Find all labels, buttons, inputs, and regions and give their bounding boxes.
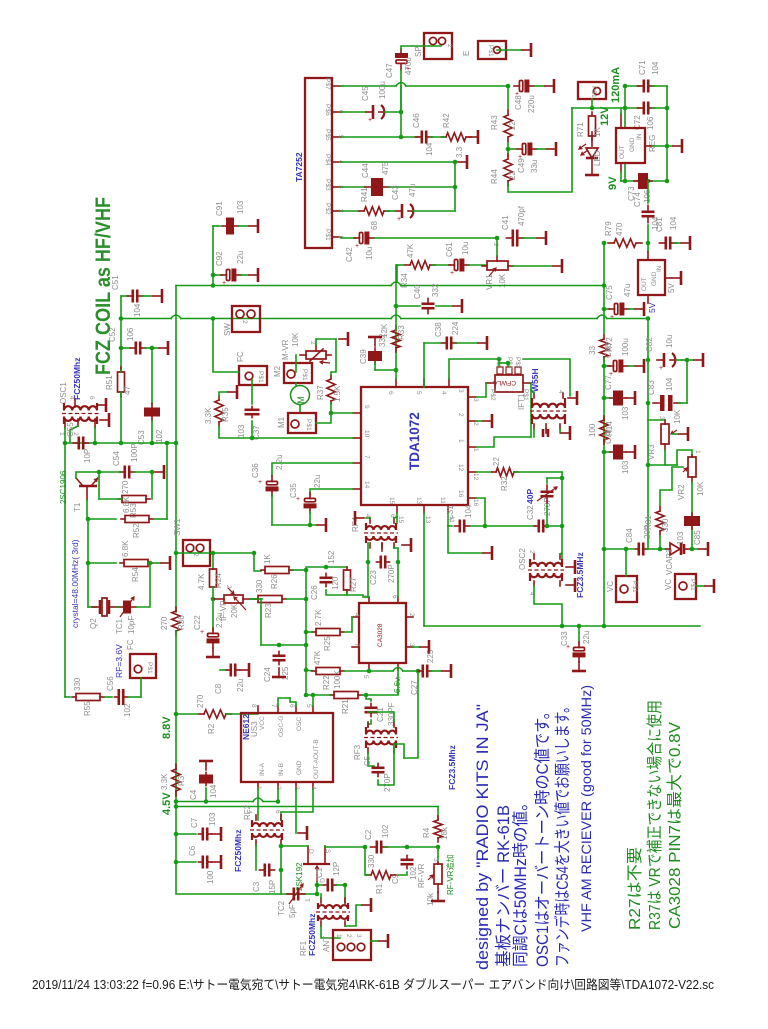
- transformer RF4: [364, 523, 398, 543]
- svg-text:22u: 22u: [582, 631, 591, 644]
- junction 40P top: [560, 476, 565, 481]
- pin TDA1072 10 left: [353, 437, 361, 439]
- capacitor C82 10u: [657, 353, 675, 372]
- junction C71 left: [623, 84, 628, 89]
- wire R81 to VR2 wiper: [660, 467, 683, 505]
- wire x65 long vertical: [64, 443, 66, 697]
- svg-text:270: 270: [196, 694, 205, 708]
- wire REG GND: [652, 145, 672, 147]
- wire C43 to node: [413, 210, 455, 212]
- svg-text:C5: C5: [363, 755, 372, 766]
- wire C5 loop: [378, 753, 394, 785]
- svg-text:P$1: P$1: [324, 229, 331, 241]
- pin TDA1072 1 right: [468, 446, 476, 448]
- svg-text:C40: C40: [413, 284, 422, 299]
- wire C61-VR1: [469, 264, 486, 266]
- svg-text:9: 9: [363, 405, 370, 409]
- capacitor C47 470u: [395, 49, 410, 73]
- wire RF3 out: [394, 744, 404, 758]
- svg-text:104: 104: [209, 784, 218, 798]
- svg-text:103: 103: [208, 812, 217, 826]
- svg-text:OSC1はオーバートーン時のC値です。: OSC1はオーバートーン時のC値です。: [533, 704, 552, 967]
- svg-text:R37は VRで補正できない場合に使用: R37は VRで補正できない場合に使用: [646, 700, 664, 930]
- junction rail2 left end: [119, 316, 124, 321]
- svg-text:475: 475: [381, 161, 390, 175]
- svg-text:+: +: [450, 270, 454, 277]
- svg-text:68: 68: [370, 221, 379, 230]
- svg-text:R23: R23: [264, 603, 273, 618]
- svg-text:102: 102: [381, 824, 390, 838]
- capacitor C76 100u: [608, 360, 628, 379]
- svg-text:C42: C42: [345, 247, 354, 262]
- connector ANT: [333, 930, 371, 960]
- pin REG IN: [620, 114, 622, 128]
- junction C39 row: [394, 368, 399, 373]
- wire to gnd: [682, 359, 693, 361]
- wire R52 right: [154, 518, 167, 520]
- wire R43-R44: [507, 143, 509, 156]
- svg-text:22u: 22u: [313, 475, 322, 488]
- svg-text:R35: R35: [221, 407, 230, 422]
- svg-text:C85: C85: [693, 530, 702, 545]
- wire bottom rail y626: [424, 625, 700, 627]
- pin RF2 stubs: [256, 815, 281, 845]
- pin stub TA7252 P$2: [332, 210, 341, 212]
- wire left vertical 12V loop: [624, 86, 626, 127]
- svg-text:2: 2: [225, 585, 232, 589]
- svg-text:R21: R21: [341, 699, 350, 714]
- svg-text:100: 100: [206, 870, 215, 884]
- svg-text:15: 15: [388, 497, 395, 505]
- capacitor C83 104: [653, 395, 680, 411]
- junction 40P/C32: [545, 524, 550, 529]
- resistor R36 270: [172, 607, 180, 635]
- wire to C52: [121, 347, 130, 349]
- wire P$1: [341, 237, 356, 239]
- svg-text:15: 15: [397, 516, 404, 524]
- wire C9 to R1: [398, 872, 407, 875]
- pin TDA1072 12 right: [468, 471, 476, 473]
- wire C31 right: [470, 525, 485, 527]
- svg-text:R32: R32: [500, 476, 509, 491]
- wire C84 right: [647, 548, 660, 550]
- svg-text:7: 7: [363, 455, 370, 459]
- junction C4/4.5V rail: [204, 799, 209, 804]
- svg-text:22u: 22u: [236, 251, 245, 264]
- wire R44 to 12V feed: [508, 108, 572, 192]
- wire pin3 to gnd: [413, 646, 419, 648]
- svg-text:FC: FC: [126, 639, 135, 650]
- svg-text:FCZ50Mhz: FCZ50Mhz: [307, 914, 317, 957]
- svg-text:P$2: P$2: [489, 389, 496, 401]
- svg-text:C4: C4: [189, 789, 198, 800]
- junction FC feed: [211, 316, 216, 321]
- wire to C92: [213, 274, 222, 276]
- wire SP to C47: [401, 46, 441, 49]
- resistor R43 22: [504, 110, 512, 142]
- wire RF1 top to rail: [320, 894, 322, 898]
- wire P$2: [341, 210, 360, 212]
- svg-text:+: +: [355, 243, 359, 250]
- svg-text:RF3: RF3: [353, 744, 362, 760]
- svg-text:R71: R71: [576, 122, 585, 137]
- ground OSC2 right2: [566, 578, 575, 592]
- pin stub TA7252 P$7: [332, 85, 341, 87]
- wire drain to RF2: [281, 845, 308, 847]
- capacitor C39 332: [368, 348, 382, 364]
- svg-text:100P: 100P: [130, 443, 139, 462]
- junction TC2/gate: [315, 892, 320, 897]
- wire to R54: [88, 562, 116, 564]
- junction C53 tap: [150, 346, 155, 351]
- wire to C21: [366, 695, 371, 701]
- ground VR3 wiper: [679, 427, 688, 441]
- trimmer capacitor TC2 5pF: [287, 884, 305, 904]
- ground above C4: [199, 761, 213, 770]
- junction C54/gnd: [150, 470, 155, 475]
- svg-text:470u: 470u: [404, 57, 413, 75]
- wire pin6 up: [395, 332, 397, 379]
- resistor R32 22: [492, 468, 518, 476]
- wire C27 right: [431, 670, 441, 672]
- wire C24 row: [261, 644, 306, 646]
- wire pin1 to IFT1: [476, 437, 531, 447]
- svg-text:CFWLA: CFWLA: [493, 379, 516, 386]
- ground above R35: [228, 385, 237, 399]
- wire to C31: [448, 525, 452, 527]
- junction 9V rail end: [602, 283, 607, 288]
- wire C21 to RF3: [368, 720, 371, 727]
- capacitor C48 220u: [514, 80, 534, 99]
- svg-text:IFT1: IFT1: [517, 393, 526, 410]
- wire R54 right: [153, 562, 160, 564]
- junction R21 left: [304, 693, 309, 698]
- capacitor C75 47u: [609, 303, 629, 322]
- resistor R53 270: [118, 496, 150, 503]
- pin stub TA7252 P$1: [332, 236, 341, 238]
- svg-text:1: 1: [457, 439, 464, 443]
- junction R43 top: [506, 84, 511, 89]
- junction C23 left: [366, 560, 371, 565]
- potentiometer M-VR 10K: [300, 345, 331, 364]
- wire 4.5V rail B: [176, 806, 438, 808]
- wire M-VR to M2: [295, 355, 297, 372]
- wire C51 to gnd: [142, 295, 152, 297]
- resistor R42 3.3: [441, 133, 471, 141]
- junction 5V net: [646, 316, 651, 321]
- pin NE612 3 bottom: [295, 782, 297, 789]
- svg-text:FCZ50Mhz: FCZ50Mhz: [72, 358, 82, 401]
- svg-text:C54: C54: [112, 451, 121, 466]
- svg-text:2.2u: 2.2u: [275, 454, 284, 470]
- svg-text:103: 103: [237, 424, 246, 438]
- junction C45/C47 node: [399, 110, 404, 115]
- capacitor C91 103: [222, 218, 238, 235]
- wire RF4 pin3 down: [394, 548, 398, 562]
- wire to C84: [604, 548, 634, 550]
- svg-text:1.5K: 1.5K: [333, 385, 342, 402]
- svg-text:104: 104: [464, 504, 473, 518]
- svg-text:10pF: 10pF: [127, 616, 136, 634]
- svg-text:120mA: 120mA: [610, 67, 622, 103]
- svg-text:FCZ COIL as HF/VHF: FCZ COIL as HF/VHF: [92, 197, 115, 375]
- svg-text:同調Cは50MHz時の値。: 同調Cは50MHz時の値。: [511, 795, 530, 967]
- svg-text:47K: 47K: [313, 650, 322, 665]
- wire to R34: [397, 264, 404, 266]
- ground after C49: [547, 142, 556, 156]
- wire RF3 top link: [368, 712, 394, 722]
- svg-text:+: +: [659, 365, 663, 372]
- ground under RF-VR: [431, 892, 445, 901]
- svg-text:R27: R27: [349, 577, 358, 592]
- svg-text:C26: C26: [310, 585, 319, 600]
- svg-text:ANT: ANT: [322, 936, 331, 952]
- wire filter to TDA pin3: [476, 383, 486, 397]
- svg-text:2: 2: [241, 320, 248, 324]
- resistor R35 3.3K: [215, 396, 223, 426]
- capacitor C42 10u: [354, 232, 374, 251]
- ground after C48: [545, 79, 554, 93]
- junction CA pin5: [367, 669, 372, 674]
- svg-text:VHF AM RECIEVER (good for 50: VHF AM RECIEVER (good for 50MHz): [579, 685, 594, 932]
- junction R22: [304, 668, 309, 673]
- svg-text:M-VR: M-VR: [281, 339, 290, 360]
- svg-text:33u: 33u: [530, 160, 539, 173]
- wire C53 vertical: [151, 348, 153, 404]
- trimmer capacitor TC1 10pF: [118, 597, 136, 617]
- svg-text:7: 7: [270, 704, 277, 708]
- wire C45 to node: [384, 111, 401, 113]
- wire VC2 gnd: [696, 585, 704, 587]
- capacitor C9 102: [401, 855, 414, 868]
- wire rail2 to FC: [213, 319, 239, 373]
- pin NE612 2 bottom: [277, 782, 279, 789]
- svg-text:R51: R51: [105, 375, 114, 390]
- wire pin6 up: [290, 698, 296, 706]
- svg-text:4.7K: 4.7K: [197, 573, 206, 590]
- wire 9V main rail: [176, 282, 604, 286]
- junction R37/M1: [329, 411, 334, 416]
- wire Q2-TC1: [117, 606, 119, 608]
- capacitor C84 20P: [635, 543, 646, 556]
- ground RF4 pin3 row: [402, 538, 411, 552]
- capacitor C23 270P: [376, 556, 389, 569]
- capacitor C78 103: [610, 445, 626, 460]
- svg-text:P$1: P$1: [257, 371, 264, 383]
- svg-text:100u: 100u: [378, 81, 387, 99]
- svg-text:10k: 10k: [426, 892, 435, 906]
- svg-text:6: 6: [391, 595, 398, 599]
- svg-text:5V: 5V: [647, 302, 657, 313]
- wire IFT1 pin6 link: [531, 390, 534, 393]
- pin OSC1 bottom-left: [64, 419, 66, 428]
- junction C21 top: [364, 693, 369, 698]
- svg-text:R22: R22: [322, 675, 331, 690]
- svg-text:C49: C49: [517, 158, 526, 173]
- wire R23 left: [250, 598, 258, 600]
- capacitor C72 106: [637, 102, 654, 115]
- ground under LED: [585, 160, 599, 175]
- capacitor C61 10u: [449, 259, 469, 278]
- svg-text:E: E: [462, 51, 471, 56]
- wire to C76: [604, 365, 610, 367]
- wire to VR2 branch: [665, 464, 677, 466]
- svg-text:P$1: P$1: [631, 581, 638, 593]
- wire pin1 down to RF2: [257, 789, 259, 820]
- wire pin3 down to gnd: [295, 789, 297, 833]
- svg-text:C44: C44: [361, 163, 370, 178]
- pin TDA1072 15 bottom: [396, 505, 398, 513]
- junction C82: [646, 358, 651, 363]
- ground under C24: [272, 668, 286, 677]
- wire C91 to gnd: [238, 225, 248, 227]
- svg-text:R1: R1: [375, 883, 384, 894]
- pin filter P$1: [523, 382, 531, 384]
- svg-text:+: +: [368, 117, 372, 124]
- wire to C40: [396, 305, 420, 307]
- svg-text:10K: 10K: [291, 332, 300, 347]
- pin CA3028 8: [368, 597, 370, 603]
- junction C37/pin10: [250, 436, 255, 441]
- connector M1: [288, 413, 316, 433]
- svg-text:CA3028: CA3028: [377, 623, 384, 647]
- svg-text:3: 3: [355, 934, 362, 938]
- junction OSC1 pin3: [93, 441, 98, 446]
- wire R35 to pin10 row: [219, 426, 252, 438]
- junction C84 row: [602, 547, 607, 552]
- wire to R43: [507, 86, 509, 109]
- wire RF4 pin1 down: [367, 543, 369, 562]
- wire R27 bottom: [346, 593, 348, 595]
- pin OSC1 pin3 stub: [94, 419, 96, 428]
- svg-text:10K: 10K: [673, 409, 682, 424]
- svg-text:1: 1: [694, 450, 701, 454]
- ground C31 branch: [483, 546, 492, 560]
- wire 40P top: [547, 477, 562, 479]
- resistor R55 330: [72, 694, 104, 701]
- wire OSC2 to rail: [534, 586, 562, 626]
- svg-text:3: 3: [658, 416, 665, 420]
- wire C23 to CA pin8: [367, 562, 369, 597]
- junction R4 bottom: [436, 845, 441, 850]
- pin stub TA7252 P$6: [332, 111, 341, 113]
- svg-text:D: D: [307, 849, 314, 854]
- svg-text:ファンデ時はC54を大きい値でお願いします。: ファンデ時はC54を大きい値でお願いします。: [552, 700, 572, 967]
- transformer IFT1: [530, 398, 567, 424]
- svg-text:C32: C32: [526, 505, 535, 520]
- junction rail B start: [174, 804, 179, 809]
- switch SW: [232, 306, 260, 332]
- resistor R22 47K: [312, 668, 344, 675]
- junction P$4/gnd: [453, 160, 458, 165]
- svg-text:P$7: P$7: [324, 78, 331, 90]
- svg-text:47K: 47K: [406, 243, 415, 258]
- wire x121 upper: [120, 296, 122, 370]
- pin CA3028 1: [397, 663, 399, 670]
- svg-text:2.7K: 2.7K: [314, 609, 323, 626]
- svg-text:5: 5: [362, 675, 369, 679]
- junction C6: [174, 860, 179, 865]
- pin filter P$2: [486, 382, 495, 384]
- junction filter pins: [506, 361, 511, 366]
- svg-text:5: 5: [415, 391, 422, 395]
- ground OSC1 right top: [97, 398, 106, 412]
- svg-text:12: 12: [472, 473, 479, 481]
- svg-text:103: 103: [676, 531, 685, 545]
- receiver U TDA1072 body: [361, 387, 468, 505]
- svg-text:22: 22: [492, 457, 501, 466]
- junction OSC2/rail: [560, 624, 565, 629]
- svg-text:R4: R4: [422, 827, 431, 838]
- svg-text:IN-B: IN-B: [278, 763, 285, 776]
- svg-text:CA3028 PIN7は最大で0.8V: CA3028 PIN7は最大で0.8V: [666, 722, 684, 929]
- svg-text:103: 103: [621, 406, 630, 420]
- wire base branch: [98, 472, 100, 499]
- junction 9V right: [665, 179, 670, 184]
- pin TDA1072 5 top: [423, 379, 425, 387]
- wire R25 to CA pin2: [344, 617, 352, 632]
- wire pin5 to C27: [369, 668, 418, 672]
- wire to Q2: [88, 606, 96, 608]
- wire to RF1: [344, 885, 346, 903]
- svg-text:C27: C27: [410, 680, 419, 695]
- svg-text:P$2: P$2: [324, 203, 331, 215]
- pin TDA1072 6 top: [395, 379, 397, 387]
- pin NE612 4 bottom: [312, 782, 314, 789]
- wire to RF-VR: [437, 847, 439, 862]
- junction C33: [577, 624, 582, 629]
- svg-text:10P: 10P: [83, 449, 92, 463]
- wire to C71: [625, 85, 640, 87]
- svg-text:3.3: 3.3: [455, 146, 464, 158]
- wire OSC1 pin1 down: [64, 428, 66, 443]
- wire VR1 to gnd: [513, 265, 552, 267]
- wire R53 left: [99, 498, 122, 500]
- svg-text:C46: C46: [412, 113, 421, 128]
- svg-text:P$1: P$1: [305, 419, 312, 431]
- ground after VR1: [553, 259, 562, 273]
- capacitor C49 33u: [517, 143, 537, 162]
- ground after C77: [626, 391, 635, 405]
- wire 9V rail: [621, 180, 667, 182]
- wire y443: [65, 442, 176, 444]
- svg-text:2: 2: [472, 422, 479, 426]
- svg-text:47u: 47u: [623, 284, 632, 297]
- wire filter pin link: [499, 362, 508, 364]
- capacitor C6 100: [198, 856, 211, 869]
- wire C32 right: [547, 525, 562, 527]
- svg-text:R27は不要: R27は不要: [626, 847, 644, 930]
- wire RF3 to C27 node: [404, 670, 418, 758]
- wire vertical node x401: [400, 86, 402, 137]
- junction rail x176/y443: [174, 441, 179, 446]
- capacitor C73 106: [634, 173, 652, 189]
- wire to CA pin1 node: [366, 693, 398, 695]
- pin 5V OUT: [647, 295, 649, 303]
- wire 9V branch down: [603, 243, 605, 286]
- svg-text:104: 104: [425, 142, 434, 156]
- capacitor C27 225: [418, 665, 431, 678]
- svg-text:VR2: VR2: [677, 484, 686, 500]
- wire R81 down: [659, 536, 661, 549]
- svg-text:102: 102: [155, 429, 164, 443]
- svg-text:40P: 40P: [525, 489, 535, 504]
- pin CA3028 2r: [406, 616, 413, 618]
- capacitor C31 104: [454, 520, 469, 533]
- svg-text:C35: C35: [289, 483, 298, 498]
- capacitor C44 475: [365, 178, 389, 196]
- junction P$3: [453, 185, 458, 190]
